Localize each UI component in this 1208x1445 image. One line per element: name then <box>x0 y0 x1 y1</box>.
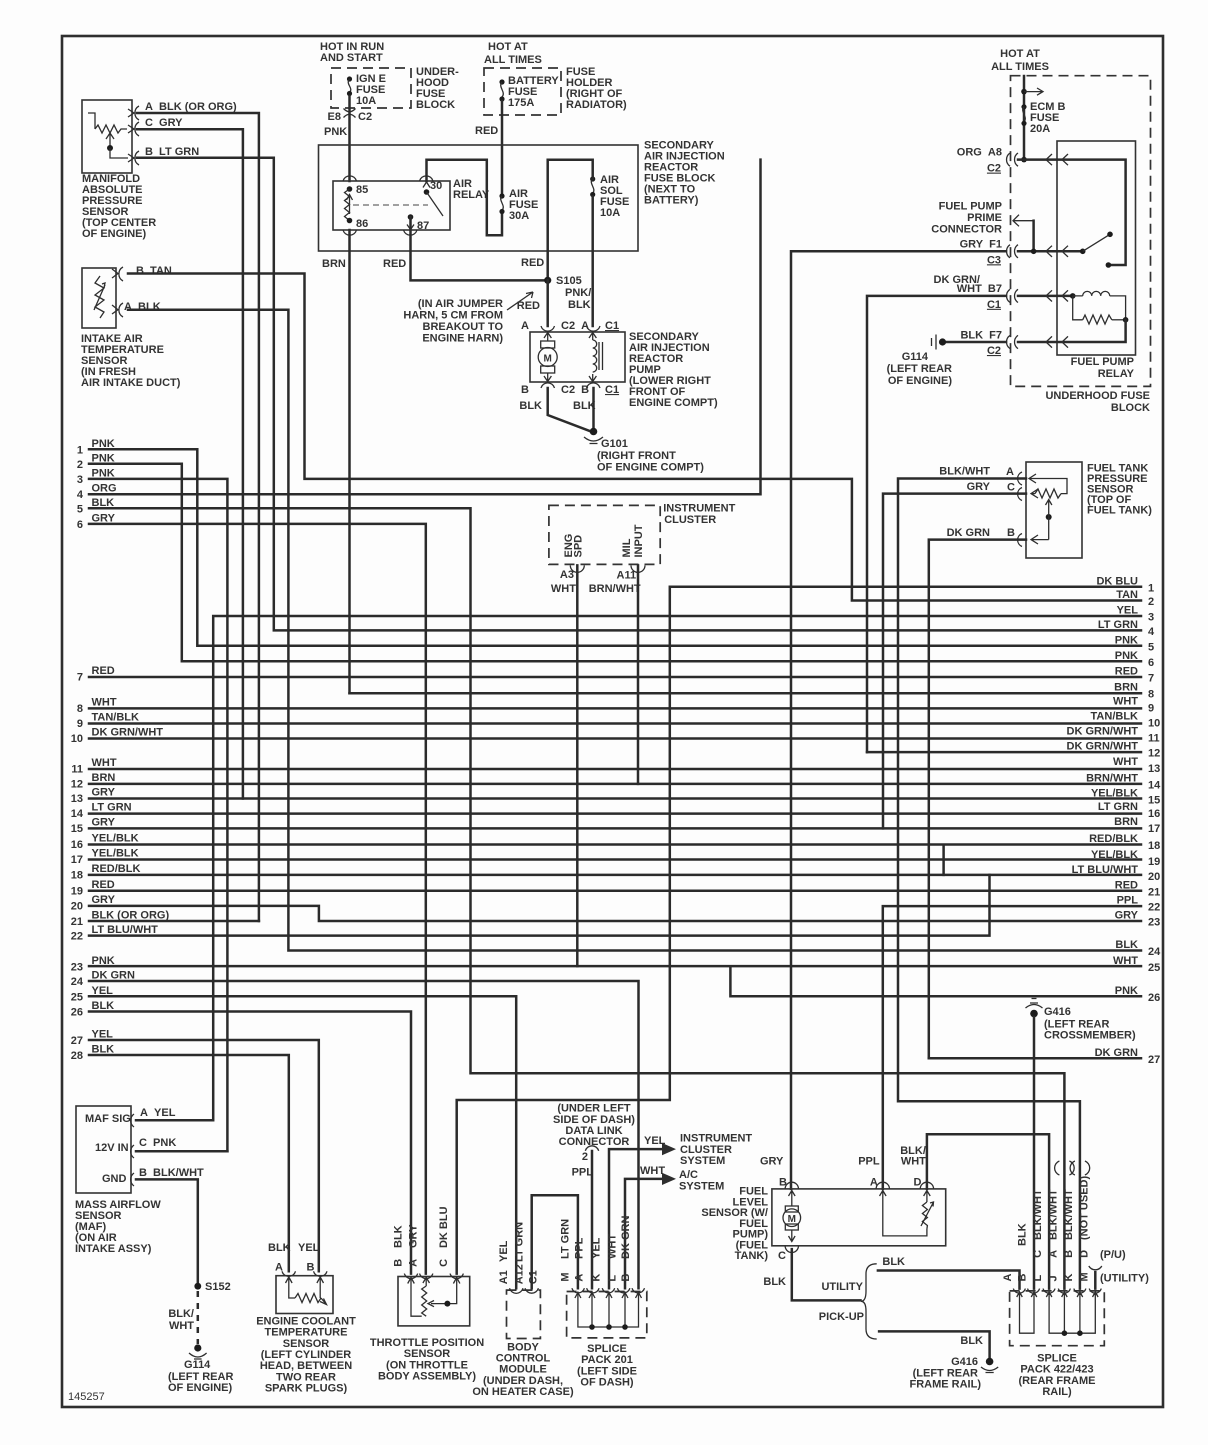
wire 19 RED to right pin 21 <box>89 889 1141 892</box>
svg-text:10: 10 <box>1148 718 1160 730</box>
svg-text:K: K <box>591 1274 603 1282</box>
wire IAT B TAN to right pin 2 <box>128 274 1141 601</box>
svg-text:FUEL TANK): FUEL TANK) <box>1087 505 1152 517</box>
svg-text:GND: GND <box>102 1173 127 1185</box>
svg-text:CLUSTER: CLUSTER <box>664 514 716 526</box>
svg-text:PNK/: PNK/ <box>565 287 591 299</box>
svg-text:L: L <box>607 1275 619 1282</box>
connector E8/C2 <box>344 109 356 118</box>
svg-text:GRY: GRY <box>408 1224 420 1248</box>
svg-text:YEL/BLK: YEL/BLK <box>1091 849 1138 861</box>
svg-text:YEL/BLK: YEL/BLK <box>1091 788 1138 800</box>
svg-text:FUEL PUMP: FUEL PUMP <box>939 201 1002 213</box>
svg-text:9: 9 <box>1148 703 1154 715</box>
svg-text:THROTTLE POSITION: THROTTLE POSITION <box>370 1337 484 1349</box>
svg-text:LT GRN: LT GRN <box>1098 619 1138 631</box>
svg-text:(LEFT REAR: (LEFT REAR <box>887 363 952 375</box>
svg-text:PRIME: PRIME <box>967 212 1002 224</box>
svg-text:C1: C1 <box>605 320 619 332</box>
svg-text:10: 10 <box>71 733 83 745</box>
svg-text:27: 27 <box>1148 1054 1160 1066</box>
svg-text:10A: 10A <box>600 207 620 219</box>
wire 8 WHT across to right pin 9 <box>89 707 1141 710</box>
svg-text:(LEFT REAR: (LEFT REAR <box>1044 1018 1109 1030</box>
svg-text:11: 11 <box>71 764 83 776</box>
svg-text:C1: C1 <box>987 299 1001 311</box>
svg-text:17: 17 <box>71 854 83 866</box>
pump solenoid coil <box>589 332 603 382</box>
svg-text:YEL: YEL <box>92 1029 114 1041</box>
wire 16 YEL/BLK to right pin 15 <box>89 845 1141 875</box>
fuel level motor <box>783 1200 801 1242</box>
wire FTP B DK GRN to right pin 27 <box>929 540 1026 1059</box>
svg-text:SPLICE: SPLICE <box>587 1343 627 1355</box>
svg-text:B: B <box>1017 1274 1029 1282</box>
svg-text:PACK 201: PACK 201 <box>581 1354 633 1366</box>
svg-text:A: A <box>1006 466 1014 478</box>
svg-text:YEL: YEL <box>591 1237 603 1259</box>
svg-text:SENSOR: SENSOR <box>283 1338 330 1350</box>
svg-text:3: 3 <box>1148 612 1154 624</box>
ECT internal resistor <box>289 1290 327 1305</box>
svg-text:RED: RED <box>1115 666 1138 678</box>
wire ORG A8 feed through relay <box>1018 160 1126 265</box>
wire PNK/BLK S105 to pump A <box>546 280 549 326</box>
svg-text:E8: E8 <box>328 111 341 123</box>
svg-text:12: 12 <box>71 779 83 791</box>
svg-text:2: 2 <box>582 1151 588 1163</box>
svg-text:PNK: PNK <box>324 126 347 138</box>
svg-text:BLK: BLK <box>92 1044 115 1056</box>
svg-text:BLK: BLK <box>1115 939 1138 951</box>
throttle position sensor box <box>398 1277 470 1326</box>
wire 4 ORG up to ORG A8 <box>89 160 761 495</box>
svg-text:5: 5 <box>1148 641 1154 653</box>
node ECM B fuse to ORG junction <box>1021 157 1027 163</box>
svg-text:GRY: GRY <box>92 894 116 906</box>
svg-text:4: 4 <box>1148 626 1155 638</box>
svg-text:19: 19 <box>1148 856 1160 868</box>
svg-text:SPD: SPD <box>573 535 585 558</box>
svg-text:GRY: GRY <box>967 481 991 493</box>
svg-text:C2: C2 <box>987 163 1001 175</box>
svg-text:15: 15 <box>1148 795 1160 807</box>
svg-text:DK GRN: DK GRN <box>947 527 990 539</box>
svg-text:RED/BLK: RED/BLK <box>1089 833 1138 845</box>
svg-text:INPUT: INPUT <box>633 524 645 557</box>
svg-text:CONTROL: CONTROL <box>496 1353 551 1365</box>
fuel level sensor box <box>772 1189 946 1246</box>
svg-text:2: 2 <box>77 459 83 471</box>
wire A11 BRN/WHT down to right pin 14 <box>637 565 640 784</box>
svg-text:B BLK/WHT: B BLK/WHT <box>139 1167 204 1179</box>
svg-text:RED: RED <box>92 879 115 891</box>
svg-text:26: 26 <box>1148 992 1160 1004</box>
svg-text:OF DASH): OF DASH) <box>580 1377 634 1389</box>
svg-text:85: 85 <box>356 184 368 196</box>
svg-text:A11: A11 <box>617 570 637 582</box>
svg-text:21: 21 <box>1148 886 1160 898</box>
svg-text:ALL TIMES: ALL TIMES <box>484 54 542 66</box>
fuel pump relay box <box>1057 141 1136 355</box>
svg-text:DK GRN/WHT: DK GRN/WHT <box>92 726 164 738</box>
svg-text:BODY: BODY <box>507 1341 539 1353</box>
svg-text:(NOT USED): (NOT USED) <box>1078 1176 1090 1241</box>
svg-text:LT GRN: LT GRN <box>1098 801 1138 813</box>
wire right 1 DK BLU to TP sensor C <box>457 587 1141 1274</box>
svg-text:WHT: WHT <box>92 757 117 769</box>
svg-text:C PNK: C PNK <box>139 1137 176 1149</box>
svg-text:20: 20 <box>71 901 83 913</box>
svg-text:A12: A12 <box>514 1264 526 1284</box>
svg-text:YEL: YEL <box>1117 605 1139 617</box>
wire 23 PNK to right pin 26 <box>89 966 1141 996</box>
connector bump A11 <box>631 565 645 572</box>
splice pack 201 dashed box <box>567 1292 647 1338</box>
svg-text:BLK: BLK <box>519 400 542 412</box>
svg-text:S105: S105 <box>556 275 582 287</box>
splice 201 pin bumps <box>572 1288 645 1293</box>
svg-text:DK GRN: DK GRN <box>1095 1047 1138 1059</box>
svg-text:K: K <box>1063 1274 1075 1282</box>
svg-text:OF ENGINE): OF ENGINE) <box>888 375 953 387</box>
wire MAF C PNK from ECM 3 <box>136 1150 227 1153</box>
svg-text:24: 24 <box>71 976 84 988</box>
fuel level pin bumps top <box>785 1182 934 1189</box>
svg-text:A: A <box>1002 1274 1014 1282</box>
wire 28 BLK to ECT sensor A <box>89 1055 289 1271</box>
wire 15 GRY across (continues as right pin 17 BRN) <box>89 827 1141 830</box>
node battery tap with arrow <box>1021 89 1027 95</box>
svg-text:D: D <box>1078 1250 1090 1258</box>
BCM pin bumps <box>510 1288 539 1293</box>
svg-text:BATTERY): BATTERY) <box>644 195 699 207</box>
svg-text:BRN/WHT: BRN/WHT <box>589 583 641 595</box>
svg-text:86: 86 <box>356 218 368 230</box>
svg-text:ENGINE HARN): ENGINE HARN) <box>422 333 503 345</box>
wire right 12 DK GRN/WHT from B7 trunk <box>867 751 1141 754</box>
svg-text:INTAKE ASSY): INTAKE ASSY) <box>75 1243 152 1255</box>
svg-text:9: 9 <box>77 718 83 730</box>
svg-text:ALL TIMES: ALL TIMES <box>991 61 1049 73</box>
svg-text:BRN/WHT: BRN/WHT <box>1086 772 1138 784</box>
svg-text:19: 19 <box>71 886 83 898</box>
svg-text:MAF SIG: MAF SIG <box>85 1113 131 1125</box>
wire FTP A BLK/WHT to splice 422 pin K <box>898 479 1080 1289</box>
svg-text:RED: RED <box>521 257 544 269</box>
svg-text:23: 23 <box>71 961 83 973</box>
svg-text:BRN: BRN <box>322 258 346 270</box>
svg-text:RED: RED <box>475 125 498 137</box>
TP pin bumps <box>404 1274 463 1279</box>
svg-text:UNDERHOOD FUSE: UNDERHOOD FUSE <box>1045 390 1150 402</box>
svg-text:YEL/BLK: YEL/BLK <box>92 833 139 845</box>
fuse IGN E 10A <box>347 76 352 96</box>
wire 27 YEL to ECT sensor B <box>89 1040 319 1271</box>
svg-text:4: 4 <box>77 489 84 501</box>
svg-text:BRN: BRN <box>92 772 116 784</box>
wire AIR SOL fuse to pump C1 <box>591 197 594 327</box>
wire G416 crossmember to splice 422 pin B <box>1033 1017 1036 1289</box>
body control module dashed box <box>507 1290 541 1338</box>
wire 5 BLK to splice pack 422 pin J <box>89 508 1064 1288</box>
svg-text:ON HEATER CASE): ON HEATER CASE) <box>472 1386 574 1398</box>
svg-text:G416: G416 <box>951 1356 978 1368</box>
svg-text:BLK: BLK <box>882 1256 905 1268</box>
svg-text:TAN/BLK: TAN/BLK <box>1091 711 1139 723</box>
svg-text:28: 28 <box>71 1050 83 1062</box>
svg-text:DK GRN/WHT: DK GRN/WHT <box>1067 726 1139 738</box>
svg-text:18: 18 <box>1148 840 1160 852</box>
fuse BATTERY 175A <box>499 79 504 101</box>
svg-text:PPL: PPL <box>572 1166 594 1178</box>
pump motor <box>538 332 557 382</box>
svg-text:GRY: GRY <box>760 1155 784 1167</box>
svg-text:BLK: BLK <box>92 497 115 509</box>
svg-text:MIL: MIL <box>621 538 633 557</box>
wire 14 LT GRN across to right pin 16 <box>89 812 1141 815</box>
svg-text:ORG A8: ORG A8 <box>957 147 1002 159</box>
svg-text:LT GRN: LT GRN <box>92 802 132 814</box>
wire GRY F1 to relay switch <box>1018 250 1083 253</box>
svg-text:TAN: TAN <box>1116 589 1138 601</box>
svg-text:LT GRN: LT GRN <box>560 1219 572 1259</box>
svg-text:RELAY: RELAY <box>1098 368 1135 380</box>
svg-text:WHT: WHT <box>1113 756 1138 768</box>
wire 7 RED across to right pin 7 <box>89 676 1141 679</box>
svg-text:BLK F7: BLK F7 <box>960 330 1002 342</box>
utility / pick-up brace <box>861 1264 877 1339</box>
svg-text:SYSTEM: SYSTEM <box>679 1180 724 1192</box>
fuse AIR FUSE 30A <box>499 193 504 214</box>
svg-text:GRY: GRY <box>92 512 116 524</box>
svg-text:(UTILITY): (UTILITY) <box>1100 1273 1149 1285</box>
wire 22 LT BLU/WHT to right pin 20 <box>89 875 990 936</box>
svg-text:M: M <box>544 354 552 365</box>
svg-text:G101: G101 <box>601 438 628 450</box>
svg-text:PNK: PNK <box>1115 650 1138 662</box>
svg-text:30A: 30A <box>509 210 529 222</box>
svg-text:B: B <box>1063 1250 1075 1258</box>
svg-text:B: B <box>393 1259 405 1267</box>
wire right 25 WHT from instrument cluster A3 <box>576 565 579 966</box>
wire 6 GRY to TP sensor A <box>89 524 426 1274</box>
pump connector bumps bottom <box>541 383 600 388</box>
svg-text:RED: RED <box>92 665 115 677</box>
splice 422 internal bus <box>1020 1300 1096 1336</box>
svg-text:C: C <box>1032 1250 1044 1258</box>
TP internal resistor and wiper <box>411 1286 457 1316</box>
svg-text:YEL: YEL <box>298 1242 320 1254</box>
svg-text:C1: C1 <box>528 1270 540 1284</box>
svg-text:GRY: GRY <box>1115 909 1139 921</box>
fuse AIR SOL FUSE 10A <box>590 176 595 197</box>
svg-text:BLK/WHT: BLK/WHT <box>1047 1189 1059 1240</box>
svg-text:18: 18 <box>71 870 83 882</box>
wire MAP B LT GRN to right pin 4 <box>137 158 1141 631</box>
manifold absolute pressure sensor box <box>82 100 139 173</box>
svg-text:B: B <box>1007 527 1015 539</box>
svg-text:A: A <box>870 1176 878 1188</box>
svg-text:BLK/WHT: BLK/WHT <box>939 466 990 478</box>
svg-text:CONNECTOR: CONNECTOR <box>931 224 1002 236</box>
wire battery feed into ECM B fuse <box>1023 76 1026 160</box>
wire 3 PNK to MAF C <box>89 479 227 1151</box>
svg-text:DK GRN: DK GRN <box>620 1216 632 1259</box>
svg-text:WHT: WHT <box>1113 955 1138 967</box>
svg-text:(P/U): (P/U) <box>1100 1249 1126 1261</box>
svg-text:87: 87 <box>417 220 429 232</box>
wire BLK/WHT fuel D to splice 422 pin L <box>927 1134 1049 1288</box>
svg-text:14: 14 <box>1148 779 1161 791</box>
svg-text:HOT AT: HOT AT <box>488 41 528 53</box>
fuel tank pressure sensor box <box>1026 462 1082 558</box>
svg-text:PPL: PPL <box>858 1155 880 1167</box>
svg-text:PNK: PNK <box>92 438 115 450</box>
svg-text:WHT B7: WHT B7 <box>957 283 1002 295</box>
svg-text:BLK/WHT: BLK/WHT <box>1032 1189 1044 1240</box>
svg-text:A: A <box>408 1259 420 1267</box>
svg-text:23: 23 <box>1148 916 1160 928</box>
splice pack 422/423 dashed box <box>1010 1291 1105 1346</box>
ground G416 (left rear crossmember) <box>1026 999 1043 1018</box>
underhood fuse block dashed box <box>1011 76 1151 387</box>
svg-text:B: B <box>779 1176 787 1188</box>
wire MAF B BLK/WHT to S152 <box>136 1179 198 1286</box>
ECT pin bumps <box>282 1271 327 1276</box>
svg-text:G416: G416 <box>1044 1006 1071 1018</box>
relay switch pins 30/87 <box>407 182 443 230</box>
wire BLK/WHT dashed S152 to G114 <box>197 1291 200 1344</box>
svg-text:ORG: ORG <box>92 483 117 495</box>
svg-text:OF ENGINE): OF ENGINE) <box>168 1382 233 1394</box>
svg-text:2: 2 <box>1148 596 1154 608</box>
svg-text:SYSTEM: SYSTEM <box>680 1155 725 1167</box>
engine coolant temperature sensor box <box>276 1276 333 1314</box>
wire GRY trunk down to fuel level sensor B <box>791 251 1006 1189</box>
svg-text:15: 15 <box>71 823 83 835</box>
wire BLK fuel C to utility brace <box>792 1249 861 1300</box>
svg-text:22: 22 <box>71 931 83 943</box>
relay dashed link <box>353 204 428 206</box>
svg-text:LT BLU/WHT: LT BLU/WHT <box>92 924 159 936</box>
wire 12 BRN to air relay coil <box>89 783 1141 786</box>
wire MAP A BLK(OR ORG) to ECM 21 <box>137 113 259 921</box>
inline connector on splice 422 pin K wire <box>1070 1161 1090 1175</box>
svg-text:BLK: BLK <box>393 1225 405 1248</box>
ground G416 (left rear frame rail) <box>981 1358 998 1373</box>
svg-text:ENGINE COOLANT: ENGINE COOLANT <box>256 1316 356 1328</box>
ignition E fuse dashed box <box>331 68 411 108</box>
svg-text:16: 16 <box>1148 808 1160 820</box>
svg-text:WHT: WHT <box>640 1165 665 1177</box>
svg-text:SENSOR: SENSOR <box>404 1348 451 1360</box>
svg-text:PPL: PPL <box>574 1237 586 1259</box>
svg-text:RELAY: RELAY <box>453 189 490 201</box>
svg-text:BLK/WHT: BLK/WHT <box>1063 1189 1075 1240</box>
wire 2 PNK to right pin 6 <box>89 464 1141 662</box>
wire DK GRN/WHT B7 to relay coil and down to right pin 12 <box>867 296 1073 752</box>
svg-text:FRAME RAIL): FRAME RAIL) <box>910 1379 982 1391</box>
svg-text:SPARK PLUGS): SPARK PLUGS) <box>265 1383 348 1395</box>
svg-text:FUEL PUMP: FUEL PUMP <box>1071 356 1134 368</box>
svg-text:AIR INTAKE DUCT): AIR INTAKE DUCT) <box>81 377 181 389</box>
wire 20 GRY to right pin 23 <box>89 906 1141 921</box>
wire BLK F7 from G114 to relay <box>945 320 1126 342</box>
relay switch blade <box>1080 249 1086 255</box>
svg-text:11: 11 <box>1148 733 1160 745</box>
svg-text:6: 6 <box>77 519 83 531</box>
svg-text:GRY: GRY <box>92 787 116 799</box>
svg-text:PICK-UP: PICK-UP <box>819 1311 864 1323</box>
svg-text:C GRY: C GRY <box>145 117 183 129</box>
svg-text:SPLICE: SPLICE <box>1037 1353 1077 1365</box>
DLC pin 2 <box>585 1146 598 1151</box>
svg-text:7: 7 <box>77 672 83 684</box>
ground G114 (left rear of engine) <box>189 1344 207 1359</box>
svg-text:20: 20 <box>1148 871 1160 883</box>
wire 9 TAN/BLK across to right pin 10 <box>89 722 1141 725</box>
svg-text:175A: 175A <box>508 97 534 109</box>
svg-text:S152: S152 <box>205 1281 231 1293</box>
fuel level internal resistor <box>883 1200 934 1236</box>
svg-text:16: 16 <box>71 839 83 851</box>
svg-text:C2 A: C2 A <box>561 320 589 332</box>
svg-text:24: 24 <box>1148 946 1161 958</box>
svg-text:A: A <box>574 1274 586 1282</box>
svg-text:(LEFT CYLINDER: (LEFT CYLINDER <box>261 1349 351 1361</box>
wire right 27 DK GRN from fuel tank pressure sensor B <box>929 1057 1141 1060</box>
svg-text:BLOCK: BLOCK <box>416 99 455 111</box>
svg-text:13: 13 <box>1148 763 1160 775</box>
svg-text:WHT: WHT <box>607 1234 619 1259</box>
air relay box <box>333 181 450 230</box>
svg-text:C: C <box>778 1250 786 1262</box>
instrument cluster dashed box <box>549 505 660 564</box>
svg-text:BLK: BLK <box>268 1242 291 1254</box>
ground G101 (right front of engine compt) <box>584 428 603 444</box>
svg-text:ENGINE COMPT): ENGINE COMPT) <box>629 397 718 409</box>
svg-text:GRY: GRY <box>92 817 116 829</box>
wire 30 to AIR FUSE <box>427 160 503 236</box>
wire 13 GRY stub to MAP C trunk <box>89 797 1141 800</box>
svg-text:CROSSMEMBER): CROSSMEMBER) <box>1044 1030 1136 1042</box>
svg-text:RED/BLK: RED/BLK <box>92 863 141 875</box>
svg-text:M: M <box>560 1272 572 1281</box>
svg-text:DK BLU: DK BLU <box>438 1206 450 1248</box>
wire MAP C GRY to ECM 13 <box>137 129 243 798</box>
svg-text:17: 17 <box>1148 823 1160 835</box>
svg-text:PPL: PPL <box>1117 895 1139 907</box>
svg-text:INSTRUMENT: INSTRUMENT <box>663 502 735 514</box>
pump connector bumps top <box>541 326 600 331</box>
svg-text:25: 25 <box>1148 962 1160 974</box>
svg-text:6: 6 <box>1148 657 1154 669</box>
svg-text:RADIATOR): RADIATOR) <box>566 99 627 111</box>
svg-text:26: 26 <box>71 1007 83 1019</box>
svg-text:YEL/BLK: YEL/BLK <box>92 848 139 860</box>
svg-text:G114: G114 <box>902 351 929 363</box>
wire right 22 PPL from fuel level sensor A <box>883 906 1141 1189</box>
svg-text:BLK: BLK <box>568 299 591 311</box>
svg-text:(RIGHT FRONT: (RIGHT FRONT <box>597 450 676 462</box>
svg-text:B: B <box>307 1261 315 1273</box>
wire 1 PNK to right pin 5 <box>89 449 1141 646</box>
secondary air injection reactor pump box <box>530 332 625 382</box>
wire IAT A BLK to right pin 24 <box>128 310 1141 951</box>
wire MAF A YEL to right pin 3 <box>136 616 1141 1120</box>
svg-text:G114: G114 <box>184 1359 211 1371</box>
